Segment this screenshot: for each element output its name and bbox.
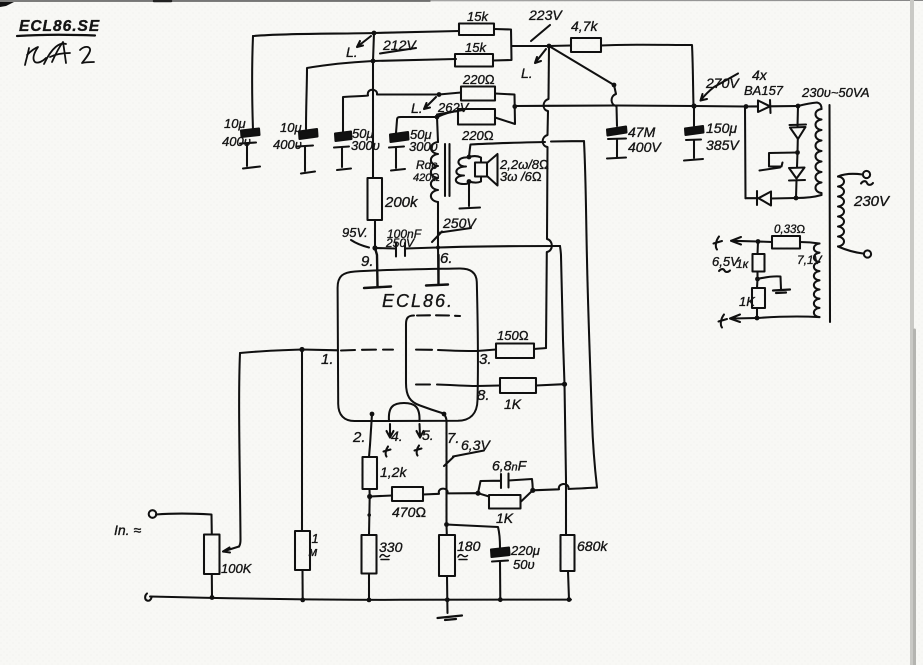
resistor R10 1,2k <box>369 445 370 457</box>
capacitor C8 6,8nF <box>478 474 533 494</box>
node E junction <box>512 104 517 109</box>
top-left corner blob <box>0 2 14 7</box>
heater arch pins 4-5 <box>389 403 420 421</box>
svg-text:220μ: 220μ <box>510 543 540 558</box>
resistor R9 1M <box>295 531 310 570</box>
svg-text:1,2k: 1,2k <box>380 464 407 480</box>
node L junction (bridge mid) <box>795 150 800 155</box>
wire: 330R to rail <box>368 574 370 600</box>
node AB junction <box>756 239 761 244</box>
ground (heater center tap) <box>773 290 790 294</box>
wire: 200k to node G (pin 9 node) <box>374 220 376 248</box>
resistor R13 1K (feedback) <box>478 493 489 496</box>
capacitor C3 50u/300V <box>335 132 352 142</box>
pin 6 lead and anode bar <box>426 255 448 286</box>
wire: 470R to fb combo with hop over pin7 lead <box>423 489 478 495</box>
svg-text:1K: 1K <box>504 396 522 412</box>
pentode inner top dashed <box>417 314 460 317</box>
pin 7 cathode dot and lead <box>442 412 447 417</box>
svg-text:6,5V: 6,5V <box>712 254 740 269</box>
pin 5 heater arrow <box>417 424 424 438</box>
wire: 270V to bridge <box>694 105 746 108</box>
svg-text:200k: 200k <box>384 194 419 211</box>
svg-text:4,7k: 4,7k <box>571 18 598 34</box>
wire: OT primary bottom to pin 6 anode (250V node) <box>437 202 440 285</box>
resistor R14 680k <box>561 535 575 571</box>
wire: 680k to rail <box>568 571 569 600</box>
wire: 250V node to right vertical <box>438 246 560 248</box>
wire: 47u branch vertical with hop <box>612 85 617 126</box>
transformer T2 secondary winding <box>456 157 469 184</box>
node W junction <box>530 488 535 493</box>
wire: cap C1 top lead up to top rail <box>251 36 254 130</box>
capacitor C4 50u/300V <box>390 132 409 142</box>
arrow callout at node D <box>424 97 436 109</box>
resistor R6 200k <box>368 178 383 220</box>
pin 4 f mark <box>384 447 391 457</box>
wire: node D to 220R upper <box>439 93 461 95</box>
svg-text:15k: 15k <box>467 9 489 24</box>
svg-text:220Ω: 220Ω <box>462 72 495 87</box>
svg-text:Rdc: Rdc <box>416 158 437 172</box>
node Y junction (pin7/180R) <box>444 522 449 527</box>
capacitor C6 100nF/250V <box>375 243 437 257</box>
svg-text:L.: L. <box>346 44 358 60</box>
svg-text:420Ω: 420Ω <box>413 172 440 184</box>
node AA junction <box>498 597 503 602</box>
potentiometer P1 100K <box>204 535 220 575</box>
f mark (top) <box>714 237 723 250</box>
wire: right ends of 220R pair joined, exit to 270V rail <box>495 94 549 125</box>
wire: 0,33R to node AB <box>758 240 772 243</box>
svg-text:9.: 9. <box>361 253 374 270</box>
svg-text:0,33Ω: 0,33Ω <box>774 224 805 236</box>
wire: 180R to rail and chassis ground <box>446 576 449 613</box>
wire: node AC to ground <box>758 276 782 289</box>
capacitor C7 150u/385V <box>693 106 695 126</box>
pentode grid dashed (pin 8 row) <box>416 383 450 386</box>
capacitor C1 10u/400V <box>241 129 260 138</box>
wire: cap C2 lead up to node B rail <box>306 61 373 129</box>
wire: speaker top to feedback line (y=143) <box>469 141 584 157</box>
wire: diagonal node C to 47u branch <box>549 46 614 85</box>
resistor R3 4,7k <box>549 44 571 47</box>
resistor R18 1K (hum pot lower) <box>756 279 759 288</box>
wire: 4,7k to right corner, down to 270V node <box>601 45 694 106</box>
node Q junction (pin1/1M) <box>299 347 304 352</box>
wire: 150R to 223V vertical <box>534 348 546 349</box>
resistor R2 15k (lower) <box>455 54 493 67</box>
node C junction (223V) <box>547 44 552 49</box>
node S junction <box>300 598 305 603</box>
wire: wavy vertical to pot wiper <box>239 353 241 547</box>
wire: top rail node A to 15k pair <box>253 31 459 36</box>
svg-text:300υ: 300υ <box>351 138 380 153</box>
wire: heater top to 0,33R <box>800 242 820 244</box>
wire: pot bottom to rail <box>211 574 213 598</box>
svg-text:BA157: BA157 <box>744 83 784 98</box>
svg-text:4.: 4. <box>391 428 403 444</box>
svg-text:50υ: 50υ <box>513 557 535 572</box>
wire: node A down to node B <box>373 33 374 61</box>
capacitor C4 50u/300V lead up and to 220R lower <box>396 111 458 133</box>
wire: 1M bottom to rail <box>301 570 303 600</box>
wire: node T down to 330R <box>368 497 371 536</box>
diode D4 <box>746 191 797 206</box>
resistor R11 330R <box>362 535 377 574</box>
node AD junction <box>756 308 758 318</box>
svg-text:L.: L. <box>411 100 423 116</box>
triode grid dashed line (pin 1 row) <box>341 349 450 352</box>
ground rail <box>150 597 571 600</box>
speaker LS1 <box>469 156 481 183</box>
svg-text:10μ: 10μ <box>280 120 302 135</box>
svg-text:1K: 1K <box>496 510 514 526</box>
wire: node B down to 200k (vertical x=373) <box>372 61 374 178</box>
capacitor C5 47u/400V <box>607 127 627 136</box>
svg-text:In. ≈: In. ≈ <box>114 522 141 538</box>
node D junction (262V rail left) <box>437 92 442 97</box>
capacitor C2 10u/400V <box>299 129 318 139</box>
svg-text:1.: 1. <box>321 351 334 368</box>
wire: primary bottom to bridge bottom <box>796 195 822 198</box>
~ mark 230V <box>861 181 873 185</box>
svg-text:м: м <box>309 544 318 559</box>
title signature KA 2 <box>25 47 46 65</box>
svg-text:6.: 6. <box>440 250 453 267</box>
wire: long feedback vertical <box>584 141 597 487</box>
node R junction <box>210 595 215 600</box>
wire: bridge left branch <box>744 107 747 199</box>
diode D2 <box>790 106 807 153</box>
node T junction (cathode fb node) <box>368 489 370 496</box>
svg-text:330: 330 <box>379 539 403 555</box>
wire: 230V top lead and terminal <box>838 174 863 177</box>
svg-text:6,3V: 6,3V <box>461 437 491 453</box>
input terminal <box>149 510 157 518</box>
pin 4 heater arrow <box>387 424 394 438</box>
wire: input to pot top <box>156 514 212 535</box>
transformer T1 heater winding 7,1V <box>814 244 820 318</box>
node X junction <box>567 597 572 602</box>
arrow callout at node C <box>535 49 546 63</box>
transformer T2 primary winding (Rdc 420R) <box>431 142 438 202</box>
transformer T1 core <box>828 105 831 322</box>
wire: 15k pair to node C <box>512 45 550 47</box>
pin 2 cathode dot and lead <box>370 412 375 417</box>
svg-text:2.: 2. <box>352 429 366 446</box>
svg-text:1K: 1K <box>739 294 756 309</box>
f mark (bottom) <box>719 315 728 328</box>
node B junction <box>371 59 376 64</box>
svg-text:5.: 5. <box>422 427 434 443</box>
node K junction <box>794 196 799 201</box>
svg-text:385V: 385V <box>706 137 740 153</box>
node Z junction <box>445 597 450 602</box>
svg-text:3ω /6Ω: 3ω /6Ω <box>500 169 542 184</box>
wire: pin1 node rail <box>240 350 338 354</box>
svg-text:4x: 4x <box>752 67 768 83</box>
resistor R15 180R <box>445 525 447 536</box>
switch arm to DC out <box>769 153 798 167</box>
svg-text:150μ: 150μ <box>706 120 737 136</box>
resistor R12 470R <box>370 496 392 497</box>
svg-text:3.: 3. <box>479 351 492 368</box>
wire: 270V rail <box>549 104 694 107</box>
wire: fb combo right to fb vertical with hop <box>533 484 597 490</box>
svg-text:7.: 7. <box>447 430 460 447</box>
svg-text:47M: 47M <box>628 124 656 140</box>
svg-text:220Ω: 220Ω <box>461 128 494 143</box>
resistor R5 220R (lower) <box>458 109 495 125</box>
transformer T1 primary winding <box>816 109 822 195</box>
svg-text:680k: 680k <box>577 538 608 554</box>
arrow callout at node A <box>357 36 371 47</box>
svg-text:400υ: 400υ <box>273 137 302 152</box>
heater feed arrow (bottom) <box>730 315 757 323</box>
svg-text:230V: 230V <box>853 193 891 210</box>
node M junction (100n tap) <box>436 246 440 250</box>
svg-text:470Ω: 470Ω <box>392 504 426 520</box>
resistor R7 150R <box>496 344 534 359</box>
wire: node F down to OT primary <box>437 117 438 142</box>
right scan edge shadow <box>910 0 914 665</box>
node O junction (speaker bottom) <box>467 179 472 184</box>
svg-text:223V: 223V <box>528 7 563 23</box>
svg-text:8.: 8. <box>477 387 490 404</box>
vertical: 250V tap down through node P to 680k <box>560 246 566 535</box>
chassis ground symbol <box>438 616 463 621</box>
svg-text:100K: 100K <box>221 561 253 576</box>
pin 5 f mark <box>415 446 422 456</box>
svg-text:230υ~50VA: 230υ~50VA <box>801 85 870 100</box>
wire: 1K to anode vertical <box>536 384 564 385</box>
node P junction <box>562 382 567 387</box>
svg-text:15k: 15k <box>465 40 487 55</box>
resistor R1 15k (upper) <box>459 24 494 36</box>
resistor R16 0,33R <box>772 236 800 249</box>
node J junction <box>796 104 801 109</box>
svg-text:L.: L. <box>521 65 533 81</box>
speaker ground <box>468 182 470 207</box>
vertical from node C down to 150R (with hops) <box>543 46 552 348</box>
node V junction <box>475 491 480 496</box>
resistor R17 1K (hum pot upper) <box>756 242 759 255</box>
transformer T2 core <box>445 144 450 196</box>
wire: node B to 15k lower <box>373 59 456 61</box>
pentode inner box (solid part) <box>406 316 444 414</box>
wire: pin 3 exit to 150R <box>450 350 496 352</box>
diode D3 <box>789 153 805 199</box>
transformer T1 230V secondary winding <box>838 177 844 247</box>
node U junction <box>367 598 372 603</box>
svg-text:400υ: 400υ <box>222 134 251 149</box>
svg-text:7,1V: 7,1V <box>797 253 823 267</box>
node N junction (speaker top) <box>467 155 472 160</box>
resistor R4 220R (upper) <box>461 87 495 101</box>
heater feed arrow (top) <box>731 237 758 245</box>
svg-text:250V: 250V <box>442 215 477 231</box>
diode D1 <box>746 100 798 113</box>
node AC junction <box>756 272 758 280</box>
node G junction <box>372 245 377 250</box>
resistor R8 1K (pin 8) <box>500 378 536 393</box>
wire: pin7 node to 220u <box>447 525 501 548</box>
wire: node AD to heater winding bottom <box>757 317 820 318</box>
wire: 230V bottom lead and terminal <box>838 247 863 254</box>
node H junction (270V) <box>691 103 696 108</box>
wire: right ends of 15k pair joined <box>493 29 512 61</box>
node I junction <box>744 104 749 109</box>
svg-text:ECL86.: ECL86. <box>382 291 454 311</box>
node F junction (OT primary top) <box>435 115 440 120</box>
top edge tick <box>154 0 171 2</box>
svg-text:250V: 250V <box>385 236 415 250</box>
svg-text:400V: 400V <box>628 139 662 155</box>
svg-text:180: 180 <box>457 538 481 554</box>
svg-text:6,8nF: 6,8nF <box>492 458 528 474</box>
svg-text:10μ: 10μ <box>224 116 246 131</box>
tube V1 envelope <box>338 268 478 421</box>
wire: 1M vertical up to node Q <box>301 350 303 532</box>
rail left terminal <box>145 594 151 601</box>
wire: pin 8 exit to 1K <box>450 385 500 386</box>
top scan edge line <box>0 0 923 2</box>
wire: node J to transformer primary <box>798 103 822 110</box>
svg-text:95V.: 95V. <box>342 225 368 240</box>
wire: 50u cap C3 lead and rail y=95 with hop over x=373 <box>343 90 439 132</box>
pot wiper arrow <box>223 547 239 553</box>
svg-text:ECL86.SE: ECL86.SE <box>19 18 100 35</box>
svg-text:150Ω: 150Ω <box>497 328 529 343</box>
pin 9 lead and grid bar <box>364 248 391 288</box>
capacitor C9 220u/50V <box>491 548 510 558</box>
node A junction (212V node) <box>372 31 377 36</box>
